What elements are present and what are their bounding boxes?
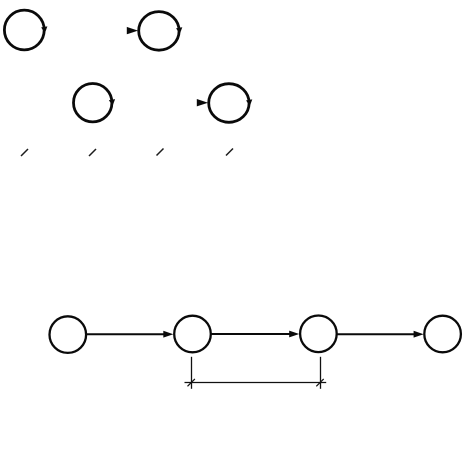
dimension tick left (188, 379, 195, 386)
continuation tick 2 (89, 149, 96, 156)
incoming arrowhead into cycle2 (127, 27, 138, 34)
node B (174, 316, 211, 353)
dimension tick right (316, 379, 323, 386)
dimension extension line under node C (320, 357, 322, 389)
continuation tick 1 (21, 149, 28, 156)
dimension extension line under node B (191, 357, 193, 389)
node cycle3 (74, 84, 112, 122)
continuation tick 4 (226, 149, 233, 156)
arrowhead on cycle3 (109, 99, 115, 106)
node cycle4 (209, 84, 249, 123)
arrow A to B (87, 333, 165, 335)
node A (50, 316, 87, 353)
node C (300, 316, 337, 353)
arrowhead on cycle2 (176, 27, 182, 34)
node cycle1 (4, 10, 44, 50)
continuation tick 3 (157, 149, 164, 156)
node cycle2 (139, 12, 179, 51)
incoming arrowhead into cycle4 (197, 99, 208, 106)
arrow B to C (212, 333, 292, 335)
arrow C to D (338, 333, 416, 335)
arrowhead on cycle4 (246, 99, 252, 106)
node D (424, 316, 461, 353)
dimension line (185, 382, 327, 384)
arrowhead on cycle1 (41, 26, 47, 33)
